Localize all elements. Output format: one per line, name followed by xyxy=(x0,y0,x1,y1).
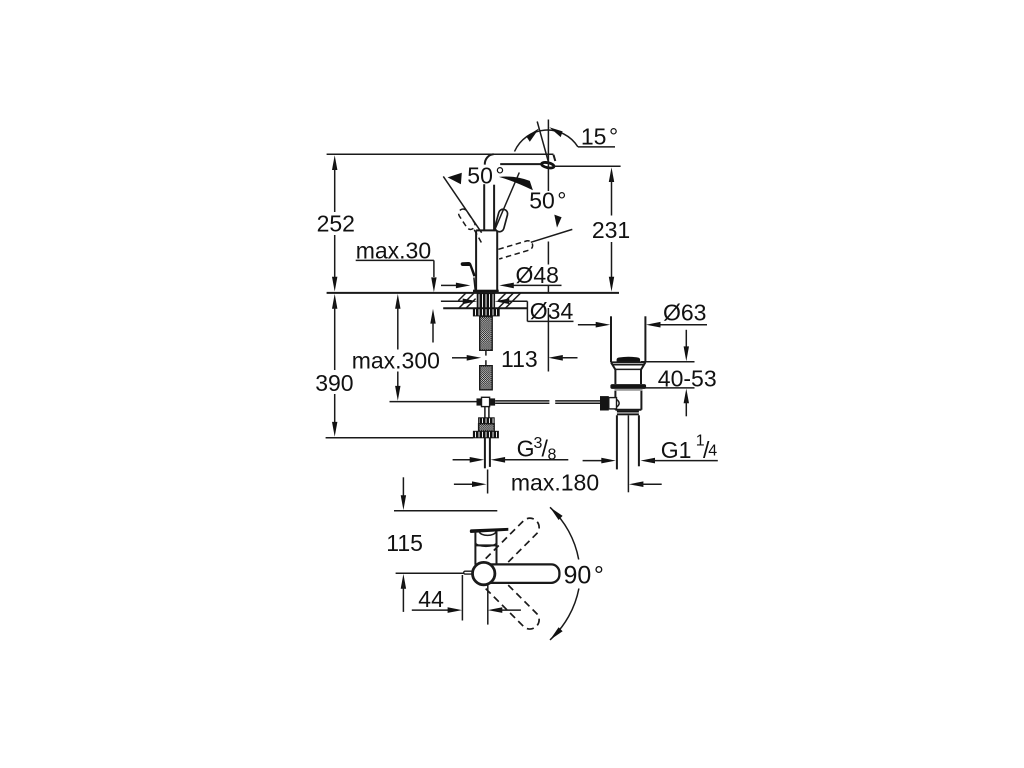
svg-text:15°: 15° xyxy=(581,124,618,150)
svg-text:Ø48: Ø48 xyxy=(516,262,559,288)
svg-text:Ø63: Ø63 xyxy=(663,300,706,326)
svg-text:G1: G1 xyxy=(661,437,692,463)
svg-text:113: 113 xyxy=(501,346,538,372)
svg-text:max.300: max.300 xyxy=(352,347,440,373)
svg-text:390: 390 xyxy=(315,370,353,396)
svg-text:40-53: 40-53 xyxy=(658,365,717,391)
svg-text:231: 231 xyxy=(592,217,630,243)
svg-text:115: 115 xyxy=(386,530,423,556)
svg-text:44: 44 xyxy=(418,586,444,612)
svg-text:90°: 90° xyxy=(564,562,604,590)
svg-text:50°: 50° xyxy=(467,163,504,189)
svg-text:50°: 50° xyxy=(529,188,566,214)
svg-text:8: 8 xyxy=(548,446,557,463)
svg-text:252: 252 xyxy=(317,211,355,237)
svg-text:Ø34: Ø34 xyxy=(530,298,574,324)
svg-text:4: 4 xyxy=(708,442,717,459)
svg-text:max.30: max.30 xyxy=(356,237,431,263)
svg-text:max.180: max.180 xyxy=(511,470,599,496)
svg-text:G: G xyxy=(517,436,535,462)
